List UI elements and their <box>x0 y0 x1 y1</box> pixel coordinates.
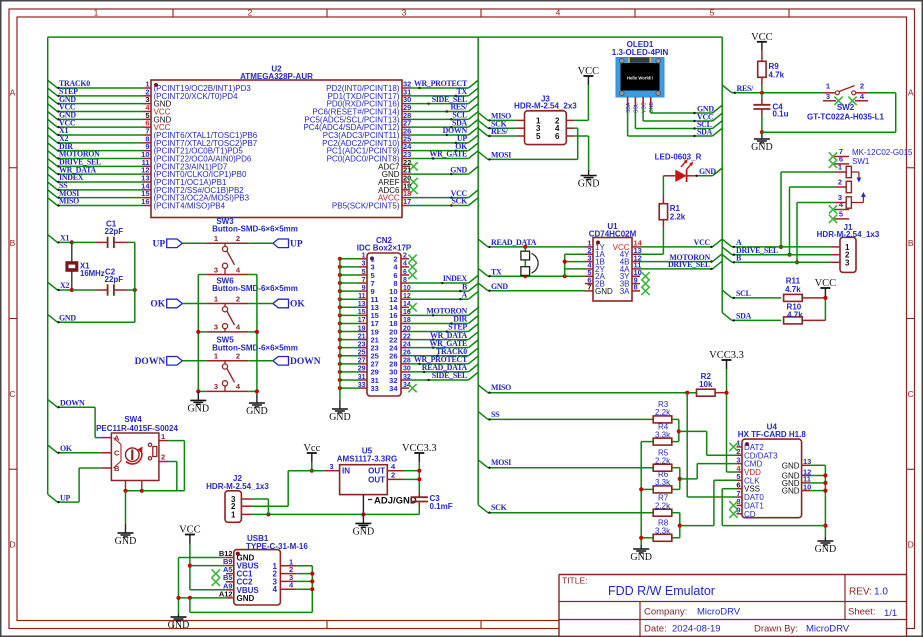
svg-text:5: 5 <box>362 269 366 276</box>
USB1 pin A12 GND <box>219 589 255 603</box>
U4 pin 5 CLK <box>736 472 760 485</box>
svg-text:SIDE_SEL: SIDE_SEL <box>432 371 467 380</box>
switch SW3 Button-SMD-6x6x5mm <box>206 217 298 275</box>
svg-text:1: 1 <box>231 510 236 519</box>
svg-text:D: D <box>908 540 914 550</box>
svg-text:READ_DATA: READ_DATA <box>491 238 537 247</box>
U2 pin 3 GND <box>143 95 172 109</box>
node VCC label (U2 pin 4) <box>59 103 76 112</box>
port UP (right of SW3) <box>273 239 303 250</box>
CN2 pin 2 <box>393 253 409 264</box>
node SCK label (U2 pin 17) <box>452 197 469 206</box>
CN2 pin 26 <box>389 350 411 361</box>
U2 pin 22 ADC7 <box>378 158 411 172</box>
wire net DIR to U2 pin 9 <box>48 143 143 152</box>
wire net TX from U2 pin 31 to middle bus <box>410 88 478 97</box>
svg-text:17: 17 <box>403 197 411 206</box>
CN2 pin 3 <box>359 261 375 272</box>
wire net VCC to U2 pin 6 <box>48 119 143 128</box>
U2 pin 17 PB5(SCK/PCINT5) <box>332 197 411 211</box>
title block <box>559 575 907 637</box>
svg-text:X2: X2 <box>60 281 69 290</box>
svg-text:2.2k: 2.2k <box>655 457 671 466</box>
svg-text:2: 2 <box>236 294 240 303</box>
wire net MISO from middle bus to R2 node <box>478 385 696 395</box>
switch SW5 Button-SMD-6x6x5mm <box>206 336 298 392</box>
wire CN2 pin 3 to ground rail <box>338 265 359 269</box>
wire net SDA from U2 pin 27 to middle bus <box>410 119 478 128</box>
U1 pin 13 4Y <box>620 246 642 259</box>
svg-text:5: 5 <box>839 210 843 219</box>
no-connect CN2 pin 2 <box>408 255 416 263</box>
connector J1 HDR-M-2.54_1x3 <box>817 223 880 272</box>
svg-text:VCC: VCC <box>694 238 711 247</box>
svg-text:GND: GND <box>697 105 714 114</box>
wire net GND to U1 pin7 <box>478 283 585 292</box>
node X1 label (U2 pin 7) <box>59 126 68 135</box>
svg-text:A: A <box>10 87 16 97</box>
wire net B from right bus to J1 pin3 <box>722 255 832 264</box>
USB1 pin B12 GND <box>219 549 255 563</box>
svg-text:33: 33 <box>371 384 379 393</box>
node SDA label (U2 pin 27) <box>452 118 468 127</box>
svg-text:3: 3 <box>214 265 218 274</box>
resistor R6 3.3k <box>653 470 672 493</box>
wire net STEP from CN2 pin 20 to middle bus <box>409 324 478 333</box>
svg-text:3: 3 <box>214 323 218 332</box>
wire CN2 pin 11 to ground rail <box>338 297 359 301</box>
svg-text:8: 8 <box>634 283 638 292</box>
wire net SCL from U2 pin 28 to middle bus <box>410 112 478 121</box>
node DOWN label (SW4) <box>60 398 85 407</box>
svg-text:(PCINT4/MISO)PB4: (PCINT4/MISO)PB4 <box>154 201 226 210</box>
wire net X2 to U2 pin 8 <box>48 135 143 144</box>
U2 pin 1 (PCINT19/OC2B/INT1)PD3 <box>143 80 251 94</box>
USB1 pin 3 <box>273 573 297 587</box>
svg-text:GND: GND <box>187 403 209 414</box>
wire R5 to R6 junction <box>672 468 682 490</box>
svg-text:OK: OK <box>60 444 73 453</box>
resistor R1 2.2k <box>659 196 686 228</box>
wire net MOSI to J3 pin4 <box>478 152 578 161</box>
wire net SDA from right bus to R10 <box>722 313 781 322</box>
node SS label (divider) <box>491 410 500 419</box>
CN2 pin 9 <box>359 285 375 296</box>
no-connect U1 pin 9 <box>641 279 649 287</box>
wire net VCC from U2 pin 18 to middle bus <box>410 190 478 199</box>
wire SW5 pin2 to DOWN port <box>248 360 273 362</box>
node MOTORON label (U2 pin 10) <box>59 150 100 159</box>
U1 pin 3 1B <box>585 253 605 266</box>
svg-text:3: 3 <box>826 92 830 101</box>
U4 pin 8 DAT1 <box>736 497 764 510</box>
svg-text:MOSI: MOSI <box>491 458 511 467</box>
U2 pin 16 (PCINT4/MISO)PB4 <box>141 197 225 211</box>
svg-text:A12: A12 <box>219 589 233 598</box>
node B label (J1) <box>736 254 742 263</box>
node VCC label (U1 pin14) <box>694 238 711 247</box>
node B label (CN2 pin 10) <box>462 282 468 291</box>
node WR_GATE label (CN2 pin 24) <box>429 339 467 348</box>
wire net RES/ from U2 pin 29 to middle bus <box>410 104 478 113</box>
svg-text:DOWN: DOWN <box>135 357 166 367</box>
node SCL label (OLED1) <box>697 120 712 129</box>
wire net DRIVE_SEL from right bus to J1 pin2 <box>722 247 832 256</box>
no-connect U1 pin 10 <box>641 272 649 280</box>
svg-text:CD74HC02M: CD74HC02M <box>589 229 637 238</box>
svg-text:11: 11 <box>358 293 366 300</box>
svg-text:FDD R/W Emulator: FDD R/W Emulator <box>608 584 715 598</box>
svg-text:Drawn By:: Drawn By: <box>754 624 798 635</box>
svg-text:SS: SS <box>491 410 500 419</box>
svg-text:C: C <box>908 389 914 399</box>
node DIR label (CN2 pin 18) <box>453 315 467 324</box>
CN2 pin 4 <box>393 261 409 272</box>
wire CN2 pin 17 to ground rail <box>338 321 359 325</box>
svg-text:Button-SMD-6×6×5mm: Button-SMD-6×6×5mm <box>212 343 298 352</box>
no-connect U1 pin 8 <box>641 287 649 295</box>
U1 pin 5 2A <box>585 268 605 281</box>
svg-text:Sheet:: Sheet: <box>848 607 875 618</box>
USB1 pin 4 <box>273 581 297 595</box>
svg-text:3.3k: 3.3k <box>655 478 671 487</box>
capacitor C2 22pF <box>72 267 137 295</box>
svg-text:34: 34 <box>389 384 398 393</box>
wire R3 to R4 junction <box>672 419 681 441</box>
node GND label (OLED1) <box>697 105 714 114</box>
U4 pin 1 DAT2 <box>736 439 764 452</box>
node DRIVE_SEL label (J1) <box>736 246 778 255</box>
node MISO label (U2 pin 16) <box>59 197 79 206</box>
wire net SIDE_SEL from U2 pin 30 to middle bus <box>410 96 478 105</box>
wire VCC3.3 to R2 and U4 VDD <box>724 369 736 472</box>
node RES/ label <box>737 84 755 93</box>
wire net SIDE_SEL from CN2 pin 32 to middle bus <box>409 372 478 381</box>
U2 pin 15 (PCINT3/OC2A/MOSI)PB3 <box>141 189 249 203</box>
wire net X1 to U2 pin 7 <box>48 127 143 136</box>
svg-text:IDC Box2×17P: IDC Box2×17P <box>357 244 412 253</box>
wire net TRACK0 to U2 pin 1 <box>48 80 143 89</box>
svg-text:0.1mF: 0.1mF <box>430 502 453 511</box>
CN2 pin 1 <box>359 253 375 264</box>
node GND label (LED) <box>699 167 716 176</box>
svg-text:OUT: OUT <box>368 475 385 484</box>
node SDA label (pullups) <box>736 312 752 321</box>
CN2 pin 31 <box>358 374 379 385</box>
svg-text:UP: UP <box>290 240 303 250</box>
svg-text:RES/: RES/ <box>491 127 509 136</box>
svg-text:UP: UP <box>60 493 70 502</box>
svg-text:AMS1117-3.3RG: AMS1117-3.3RG <box>337 454 397 463</box>
ground (CN2) <box>329 400 351 423</box>
svg-text:A: A <box>908 87 914 97</box>
svg-text:4.7k: 4.7k <box>787 310 803 319</box>
wire SW2 pin2 loop to ground <box>762 93 896 132</box>
wire net GND to U2 pin 3 <box>48 96 143 105</box>
U2 pin 5 GND <box>143 111 172 125</box>
wire SW6 pin2 to OK port <box>248 303 273 305</box>
wire net SCL from right bus to R11 <box>722 290 781 299</box>
CN2 pin 33 <box>358 382 379 393</box>
wire net VCC from OLED1 to right bus <box>643 108 722 122</box>
ground (SW4) <box>115 524 137 547</box>
svg-text:OK: OK <box>290 300 305 310</box>
wire net GND from OLED1 to right bus <box>651 105 723 114</box>
node INDEX label (CN2 pin 8) <box>443 274 468 283</box>
svg-text:WR_GATE: WR_GATE <box>429 150 467 159</box>
wire net VCC to U2 pin 4 <box>48 104 143 113</box>
CN2 pin 20 <box>389 325 411 336</box>
node SIDE_SEL label (U2 pin 30) <box>432 95 467 104</box>
node SDA label (OLED1) <box>697 128 713 137</box>
svg-text:SW4: SW4 <box>124 415 142 424</box>
wire net RES/ from right bus to SW2 <box>722 85 823 95</box>
CN2 pin 34 <box>389 382 411 393</box>
wire net SS from middle bus to R3 <box>478 412 653 421</box>
node GND label (U1) <box>491 282 508 291</box>
svg-text:GND: GND <box>246 406 268 417</box>
wire net MISO to J3 pin1 <box>478 113 516 122</box>
svg-text:16MHz: 16MHz <box>80 269 105 278</box>
wire U5 OUT to VCC3.3 and C3 <box>404 462 422 493</box>
node GND label (U2 pin 5) <box>59 111 76 120</box>
CN2 pin 21 <box>358 333 379 344</box>
U1 pin 1 1Y <box>585 239 605 252</box>
U2 pin 23 PC0(ADC0/PCINT8) <box>327 150 412 164</box>
node WR_PROTECT label (CN2 pin 28) <box>414 355 468 364</box>
node MOSI label (divider) <box>491 458 511 467</box>
svg-text:PB5(SCK/PCINT5): PB5(SCK/PCINT5) <box>332 201 400 210</box>
svg-text:Button-SMD-6×6×5mm: Button-SMD-6×6×5mm <box>212 225 298 234</box>
wire R1 to LED <box>662 176 664 196</box>
svg-text:TYPE-C-31-M-16: TYPE-C-31-M-16 <box>246 542 308 551</box>
no-connect USB1 pin A5 <box>212 569 220 577</box>
wire net WR_GATE from CN2 pin 24 to middle bus <box>409 340 478 349</box>
no-connect U4 pin 8 <box>729 501 737 509</box>
node A label (CN2 pin 12) <box>462 290 468 299</box>
svg-text:1/1: 1/1 <box>884 608 897 619</box>
wire SCK divided to U4 CLK <box>680 480 737 525</box>
U2 pin 12 (PCINT0/CLKO/ICP1)PB0 <box>141 166 247 180</box>
wire net READ_DATA to U1 pin1 <box>478 239 585 249</box>
switch SW2 GT-TC022A-H035-L1 <box>807 82 884 122</box>
power VCC (USB1) <box>179 525 201 544</box>
node TRACK0 label (CN2 pin 26) <box>436 347 467 356</box>
svg-text:7: 7 <box>587 283 591 292</box>
node A label (J1) <box>736 238 742 247</box>
node VCC label (OLED1) <box>697 113 714 122</box>
U4 pin 7 DAT0 <box>736 489 764 502</box>
USB1 pin A9 VBUS <box>223 581 259 595</box>
svg-text:7: 7 <box>362 277 366 284</box>
wire buttons right ground rail <box>248 275 259 395</box>
svg-text:2: 2 <box>838 178 842 187</box>
svg-text:HX TF-CARD H1.8: HX TF-CARD H1.8 <box>738 430 807 439</box>
svg-text:TITLE:: TITLE: <box>562 576 588 586</box>
svg-text:2.2k: 2.2k <box>655 502 671 511</box>
node DRIVE_SEL label (U1 pin11) <box>668 260 710 269</box>
CN2 pin 8 <box>393 277 409 288</box>
jumper pads with bridge (READ_DATA/TX) <box>521 247 538 276</box>
USB1 pin B9 VBUS <box>223 557 259 571</box>
svg-text:TX: TX <box>491 267 502 276</box>
resistor R3 2.2k <box>653 400 672 423</box>
U5 pin 4 OUT <box>368 462 403 476</box>
wire CN2 pin 1 to ground rail <box>338 257 359 261</box>
svg-text:OK: OK <box>150 300 165 310</box>
node OK label (SW4) <box>60 444 73 453</box>
svg-text:1: 1 <box>838 163 842 172</box>
node SCK label (divider) <box>491 503 508 512</box>
node WR_DATA label (U2 pin 12) <box>59 165 97 174</box>
CN2 pin 6 <box>393 269 409 280</box>
power VCC (J3) <box>578 66 600 85</box>
U1 pin 11 4A <box>620 261 642 274</box>
svg-text:HDR-M-2.54_2x3: HDR-M-2.54_2x3 <box>514 102 577 111</box>
wire J2 pin3 to ground rail <box>252 499 268 514</box>
no-connect CN2 pin 14 <box>408 303 416 311</box>
capacitor C1 22pF <box>72 220 135 249</box>
USB1 pin 2 <box>273 565 297 579</box>
U1 pin 6 2B <box>585 275 605 288</box>
CN2 pin 17 <box>358 317 379 328</box>
crystal X1 16MHz <box>66 240 105 292</box>
CN2 pin 13 <box>358 301 379 312</box>
U2 pin 14 (PCINT2/SS#/OC1B)PB2 <box>141 181 244 195</box>
node X2 label <box>60 281 69 290</box>
connector USB1 TYPE-C-31-M-16 body <box>234 534 309 605</box>
wire U1 pins 2-3-4 tied <box>563 254 585 276</box>
svg-text:2: 2 <box>161 453 165 462</box>
U1 pin 10 3Y <box>620 268 642 281</box>
U4 pin 11 GND <box>782 475 811 488</box>
ground (J3) <box>578 170 600 190</box>
svg-text:DOWN: DOWN <box>60 398 85 407</box>
node MISO label (divider) <box>491 383 511 392</box>
connector J3 HDR-M-2.54_2x3 <box>514 95 577 145</box>
U1 pin 14 VCC <box>613 239 643 252</box>
svg-text:10k: 10k <box>699 380 713 389</box>
node MOTORON label (CN2 pin 16) <box>426 307 467 316</box>
wire net GND to U2 pin 5 <box>48 112 143 121</box>
wire CN2 pin 21 to ground rail <box>338 338 359 342</box>
wire left bus <box>47 37 49 494</box>
wire CN2 pin 9 to ground rail <box>338 289 359 293</box>
wire net WR_PROTECT from CN2 pin 28 to middle bus <box>409 356 478 365</box>
svg-text:UP: UP <box>153 240 166 250</box>
wire net TX to U1 pin5 <box>478 268 585 278</box>
svg-text:GND: GND <box>237 594 255 603</box>
U2 pin 13 (PCINT1/OC1A)PB1 <box>141 173 227 187</box>
wire net VCC from U1 pin14 to right bus <box>640 239 722 248</box>
svg-text:MOSI: MOSI <box>491 151 511 160</box>
U2 pin 9 (PCINT21/OC0B/T1)PD5 <box>143 142 243 156</box>
svg-text:CD: CD <box>744 510 756 519</box>
IC U1 CD74HC02M (quad NOR gate) body <box>589 222 637 301</box>
node TRACK0 label (U2 pin 1) <box>59 79 90 88</box>
power VCC (pullups) <box>815 278 837 297</box>
wire DOWN port to SW5 pin1 <box>182 360 206 362</box>
U2 pin 25 PC2(ADC2/PCINT10) <box>322 134 411 148</box>
wire CN2 pin 31 to ground rail <box>338 378 359 382</box>
wire net MOSI to U2 pin 15 <box>48 190 143 199</box>
svg-text:Button-SMD-6×6×5mm: Button-SMD-6×6×5mm <box>212 284 298 293</box>
CN2 pin 27 <box>358 358 379 369</box>
U4 pin 13 GND <box>782 457 812 470</box>
wire VCC to USB1 VBUS pins <box>188 544 226 590</box>
resistor R10 4.7k <box>784 302 826 324</box>
svg-text:OUT: OUT <box>368 467 385 476</box>
svg-text:GT-TC022A-H035-L1: GT-TC022A-H035-L1 <box>807 112 884 121</box>
U5 pin 2 OUT <box>368 471 403 485</box>
port OK (right of SW6) <box>273 299 305 310</box>
svg-text:8: 8 <box>403 277 407 284</box>
svg-text:2.2k: 2.2k <box>670 213 686 222</box>
node SCK label (J3) <box>491 119 508 128</box>
wire net OK to SW4 pin C <box>48 445 101 454</box>
power Vcc (U5 input) <box>303 443 320 462</box>
node DOWN label (U2 pin 26) <box>443 126 468 135</box>
wire CN2 pin 7 to ground rail <box>338 281 359 285</box>
IC U2 ATMEGA328P-AUR (MCU) body <box>151 65 402 218</box>
node WR_GATE label (U2 pin 23) <box>429 150 467 159</box>
svg-text:VCC: VCC <box>179 525 201 536</box>
CN2 pin 30 <box>389 366 411 377</box>
CN2 pin 18 <box>389 317 411 328</box>
wire net X2 from left bus <box>48 282 72 291</box>
resistor R2 10k <box>697 372 727 396</box>
node READ_DATA label (CN2 pin 30) <box>422 363 468 372</box>
node SS label (U2 pin 14) <box>59 181 68 190</box>
ground (U4) <box>815 537 837 555</box>
svg-text:1: 1 <box>214 352 218 361</box>
wire top rail <box>48 36 723 38</box>
node SCL label (U2 pin 28) <box>452 111 467 120</box>
node X2 label (U2 pin 8) <box>59 134 68 143</box>
svg-text:PEC11R-4015F-S0024: PEC11R-4015F-S0024 <box>96 424 178 433</box>
svg-text:22pF: 22pF <box>105 275 124 284</box>
wire pullups to VCC <box>823 296 827 321</box>
svg-text:Hello World!!: Hello World!! <box>627 76 653 81</box>
svg-text:SCK: SCK <box>452 197 469 206</box>
wire middle bus <box>477 37 479 505</box>
svg-text:4: 4 <box>273 585 278 594</box>
wire net DRIVE_SEL from U1 pin11 to right bus <box>640 261 722 270</box>
svg-text:3.3k: 3.3k <box>655 430 671 439</box>
svg-text:DOWN: DOWN <box>290 357 321 367</box>
wire UP port to SW3 pin1 <box>182 242 206 244</box>
wire buttons left ground rail <box>196 275 206 394</box>
power VCC (R9) <box>751 32 773 51</box>
power VCC3.3 (U5 output) <box>402 443 437 462</box>
CN2 pin 32 <box>389 374 411 385</box>
svg-text:MISO: MISO <box>59 197 79 206</box>
svg-text:1: 1 <box>214 234 218 243</box>
wire capacitors to GND net <box>48 242 135 323</box>
svg-text:VCC3.3: VCC3.3 <box>402 443 437 454</box>
wire net SCL from OLED1 to right bus <box>635 108 722 130</box>
svg-text:MicroDRV: MicroDRV <box>806 624 850 635</box>
CN2 pin 12 <box>389 293 411 304</box>
wire ground rail (U5/J2/C3) <box>252 512 419 516</box>
U1 pin 2 1A <box>585 246 605 259</box>
svg-text:IN: IN <box>342 467 350 476</box>
LED LED-0603_R <box>655 152 702 182</box>
wire net DOWN to SW4 pin A <box>48 399 101 437</box>
wire SW1 pin2 to net DRIVE_SEL <box>787 187 834 257</box>
wire net MISO to U2 pin 16 <box>48 198 143 207</box>
power VCC3.3 (R2) <box>709 350 744 369</box>
